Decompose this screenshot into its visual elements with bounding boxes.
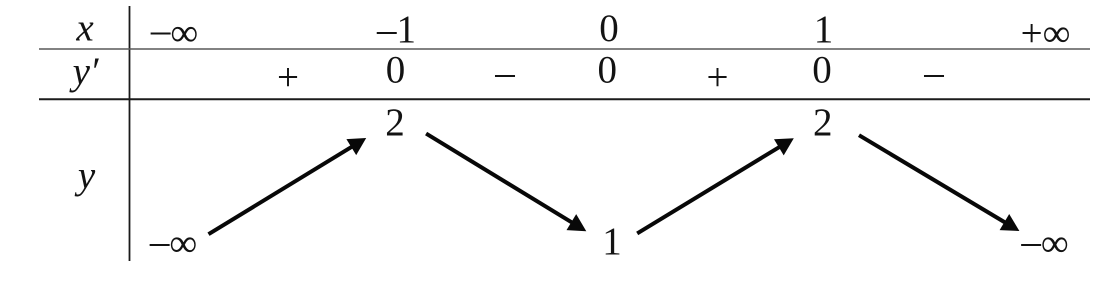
svg-text:–∞: –∞: [1020, 220, 1068, 265]
svg-text:–: –: [923, 51, 944, 94]
svg-text:2: 2: [385, 101, 405, 144]
svg-text:x: x: [75, 7, 94, 50]
decreasing arrow 4: [859, 135, 1019, 231]
svg-text:+: +: [707, 56, 729, 99]
svg-text:0: 0: [812, 49, 832, 92]
svg-text:1: 1: [602, 220, 622, 263]
svg-text:2: 2: [813, 101, 833, 144]
svg-text:–: –: [494, 51, 515, 94]
svg-text:–∞: –∞: [150, 8, 198, 54]
svg-text:+: +: [277, 56, 299, 99]
increasing arrow 1: [209, 138, 367, 234]
svg-text:1: 1: [814, 8, 834, 51]
svg-text:y: y: [74, 154, 96, 197]
svg-text:0: 0: [386, 49, 406, 92]
horizontal rule under x row: [39, 48, 1090, 50]
increasing arrow 3: [637, 138, 794, 233]
header column separator vertical line: [129, 6, 131, 261]
svg-text:+∞: +∞: [1021, 12, 1071, 55]
horizontal rule under y' row: [39, 98, 1090, 100]
decreasing arrow 2: [426, 134, 586, 232]
svg-text:0: 0: [599, 7, 619, 50]
svg-text:–∞: –∞: [149, 220, 197, 265]
svg-text:y′: y′: [69, 50, 99, 93]
svg-text:0: 0: [598, 49, 618, 92]
svg-text:–1: –1: [376, 8, 416, 51]
